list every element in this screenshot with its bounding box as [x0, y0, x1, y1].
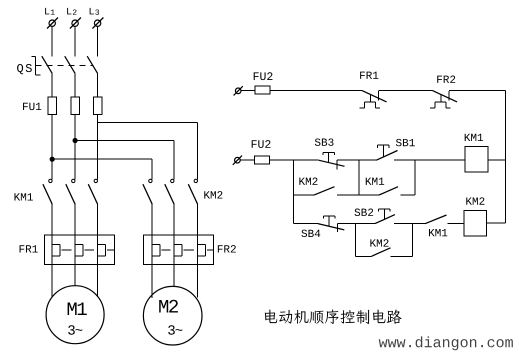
thermal relay FR1 label [20, 245, 38, 252]
text watermark www.diangon.com [379, 336, 513, 350]
motor M2 label [159, 300, 178, 313]
contactor KM2 main contact 3 [188, 179, 197, 235]
wire [337, 194, 359, 196]
pushbutton SB3 (NC) [319, 153, 345, 170]
wire [74, 264, 76, 285]
contact KM2 NO aux (self-hold) [372, 248, 391, 256]
wire [240, 159, 254, 161]
switch QS bracket [32, 56, 41, 75]
motor M2 [143, 286, 202, 345]
pushbutton SB1 label [396, 139, 415, 146]
wire [197, 264, 199, 297]
contactor KM2 main contact 1 [143, 179, 152, 235]
contactor KM1 main contact 1 [43, 179, 52, 235]
wire [293, 223, 318, 225]
pushbutton SB3 label [315, 138, 334, 145]
thermal contact FR2 label [437, 76, 455, 83]
wire [97, 264, 99, 297]
wire [51, 27, 53, 57]
wire [449, 90, 506, 92]
wire [488, 159, 506, 161]
wire junction C [414, 160, 416, 195]
fuse FU2 label [252, 140, 271, 148]
switch QS blade 3 [87, 56, 97, 73]
wire [338, 223, 375, 225]
fuse FU1 label [23, 103, 41, 110]
contact KM2 self-hold label [370, 239, 388, 246]
wire [74, 27, 76, 57]
pushbutton SB2 label [355, 209, 374, 216]
text title 电动机顺序控制电路 [265, 309, 402, 323]
wire junction D drop [354, 224, 356, 257]
pushbutton SB4 label [301, 230, 320, 237]
pushbutton SB4 (NC) [318, 216, 344, 232]
fuse FU2 (control) [255, 156, 270, 164]
coil KM2 label [466, 197, 484, 204]
coil KM1 label [465, 134, 483, 141]
fuse FU2 [255, 86, 270, 94]
wire [487, 222, 506, 224]
wire [74, 73, 76, 97]
wire [269, 159, 318, 161]
terminal L2 [70, 18, 81, 29]
wire [74, 114, 76, 179]
contact KM2 NO aux [314, 187, 335, 195]
contact KM1 NO aux (interlock) [425, 215, 446, 224]
wire [173, 264, 175, 286]
fuse FU2 label [254, 72, 273, 80]
wire [151, 159, 153, 179]
pushbutton SB1 (NO) [376, 145, 397, 160]
switch QS blade 1 [42, 56, 52, 73]
wire [390, 255, 412, 257]
wire [173, 141, 175, 180]
pushbutton SB2 (NO) [375, 209, 395, 224]
wire [447, 223, 464, 225]
node L3 [90, 8, 99, 15]
wire junction B [358, 160, 360, 195]
node junction phase2 tap [73, 138, 174, 142]
wire [151, 264, 153, 298]
contact KM1 interlock label [429, 229, 447, 236]
terminal control L2 [233, 156, 242, 165]
thermal relay FR1 NC contact [360, 91, 387, 108]
wire [400, 194, 415, 196]
wire [51, 73, 53, 97]
contactor KM1 main contact 2 [66, 179, 75, 235]
thermal relay FR2 label [218, 245, 236, 252]
coil KM2 [464, 211, 487, 236]
wire [394, 159, 465, 161]
wire [337, 159, 376, 161]
wire [97, 114, 99, 179]
switch QS blade 2 [65, 56, 75, 73]
wire [293, 194, 314, 196]
wire [355, 255, 371, 257]
terminal L3 [92, 18, 103, 29]
node junction phase3 tap [98, 122, 198, 124]
switch QS label [17, 64, 32, 74]
wire [270, 90, 362, 92]
motor M1 value 3~ [68, 325, 82, 335]
contactor KM1 label [14, 193, 32, 200]
thermal contact FR1 label [360, 72, 378, 79]
node L1 [45, 8, 55, 15]
contactor KM2 main contact 2 [165, 179, 174, 235]
motor M1 [46, 286, 104, 344]
contact KM2 aux label [299, 178, 317, 185]
motor M2 value 3~ [168, 325, 182, 335]
coil KM1 [465, 147, 488, 172]
wire junction A drop [292, 160, 294, 223]
motor M1 label [68, 302, 87, 315]
wire right rail [505, 91, 507, 224]
terminal control L1 [234, 86, 243, 95]
thermal relay FR1 [45, 235, 115, 264]
contact KM1 aux label [366, 178, 384, 185]
wire [197, 123, 199, 180]
wire [51, 114, 53, 179]
wire [359, 194, 379, 196]
contactor KM2 label [204, 191, 222, 198]
contactor KM1 main contact 3 [88, 179, 97, 235]
wire [97, 73, 99, 97]
wire [97, 27, 99, 57]
node junction phase1 tap [50, 157, 152, 161]
contact KM1 NO aux (self-hold) [379, 187, 398, 195]
terminal L1 [47, 18, 58, 29]
fuse FU1-3 [93, 97, 101, 114]
wire [394, 223, 425, 225]
wire [378, 90, 432, 92]
thermal relay FR2 [144, 235, 214, 264]
fuse FU1-1 [48, 97, 56, 114]
wire [241, 90, 255, 92]
thermal relay FR2 NC contact [430, 91, 457, 108]
wire junction E drop [412, 224, 414, 257]
fuse FU1-2 [71, 97, 79, 114]
switch QS linkage (dashed) [36, 64, 94, 66]
wire [51, 264, 53, 297]
node L2 [67, 8, 76, 15]
